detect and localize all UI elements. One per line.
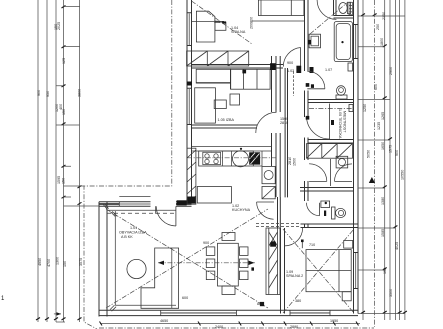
hall closet hatch [307,144,353,159]
bedroom2 door arc [256,112,277,133]
corridor inner wall [285,68,287,197]
svg-text:1650: 1650 [381,142,385,150]
svg-text:200: 200 [250,23,254,29]
chimney foot blob [188,197,196,204]
bathroom1 diagonal [310,2,348,34]
wc bottom wall [301,224,359,228]
bedroom1 wardrobe [196,11,215,42]
bathroom1 toilet [339,3,347,14]
svg-text:125: 125 [62,58,66,64]
tech room bottom wall [308,140,354,144]
living room door leaf [175,206,177,226]
svg-text:1585: 1585 [381,229,385,237]
wall dashed axis [107,212,176,214]
kitchen counter dividers [223,151,232,166]
living room circle chair [127,259,146,278]
svg-text:1800: 1800 [380,38,384,46]
svg-text:1250: 1250 [363,104,367,112]
right dimension line 4 [384,0,386,320]
stove burners [203,152,221,164]
bedroom3 nightstand bottom [342,292,351,301]
svg-text:1.06 TECHNICKA: 1.06 TECHNICKA [338,109,342,139]
living room top wall [99,202,192,206]
bedroom3 bed [306,250,351,292]
living room door jamb stub [155,206,157,214]
svg-text:150: 150 [63,261,67,267]
svg-text:3500: 3500 [389,289,393,297]
right dimension line 2 (dash-dot overhang) [374,0,376,327]
bedroom1 bed [258,0,304,16]
wc door leaf [319,203,321,216]
hall wall stub [330,159,332,186]
svg-text:3575: 3575 [79,258,83,266]
svg-text:OBYVACIA IZBA: OBYVACIA IZBA [119,231,147,235]
window in wing right wall bedroom3 [355,253,357,288]
window bottom wall 1 [161,312,237,314]
svg-text:SPALNA 2: SPALNA 2 [286,274,303,278]
bathroom1 bathtub [334,22,352,62]
svg-text:250: 250 [376,24,380,30]
wc door arc [307,203,320,216]
bedroom3 switch mark [301,241,303,249]
tech room door leaf [329,104,331,141]
svg-text:900: 900 [395,150,399,156]
corridor right wall / bathroom left wall [305,0,309,228]
wc toilet [332,207,336,219]
svg-text:150: 150 [62,178,66,184]
svg-text:4950: 4950 [38,258,42,266]
left bottom connector [56,321,65,323]
svg-text:1.07: 1.07 [325,68,332,72]
living room door arc [156,206,176,226]
kitchen chimney hatch [187,148,196,204]
svg-text:4025: 4025 [395,242,399,250]
chairs left [206,247,215,256]
extension line left ticks [56,7,99,207]
bathroom shelf wall [334,0,354,18]
tech room door arc [307,116,330,139]
chairs right [240,247,249,256]
corner insulation marks [103,198,192,216]
svg-text:900: 900 [287,61,293,65]
living room axis arrow [158,262,255,264]
bedroom3 nightstand top [344,241,353,249]
bedroom1 door arc [283,48,300,67]
svg-text:950: 950 [46,91,50,97]
window top wall [119,203,150,205]
kitchen counter back line [192,147,272,167]
extension lines right [358,16,405,314]
left dimension line 3 [55,0,57,322]
svg-text:2810: 2810 [288,157,292,165]
living room diagonals [106,209,268,308]
svg-text:150: 150 [54,24,58,30]
svg-text:KUCHYNA: KUCHYNA [232,208,251,212]
bedroom3 door arc [285,228,303,246]
wardrobe strip hatched [266,228,280,295]
dimension ticks left [36,6,82,321]
bedroom1 closet band hatched [187,51,249,66]
window in wing left wall upper [188,14,190,46]
bedroom1 diagonal [192,1,253,44]
bathroom1 towel radiator [348,63,353,71]
kitchen door arc [257,202,274,219]
wc sink [321,201,330,208]
kitchen tall cabinets [262,167,275,184]
living room left trim line [114,211,116,305]
svg-text:1500: 1500 [293,158,297,166]
svg-text:600: 600 [182,296,188,300]
svg-text:710: 710 [309,243,315,247]
door jamb blobs [242,70,246,74]
svg-text:2900: 2900 [389,67,393,75]
svg-text:1.05 IZBA: 1.05 IZBA [218,118,235,122]
dining table [218,243,239,286]
bathroom door blob [311,84,314,88]
kitchen counter [199,151,254,166]
tech room axis dashdot [309,108,352,110]
window bottom wall 2 [290,312,330,314]
svg-text:MIESTNOST: MIESTNOST [343,111,347,133]
svg-text:3800: 3800 [78,89,82,97]
bedroom3 diagonals [283,229,354,313]
svg-text:1575: 1575 [389,145,393,153]
chair top [222,233,235,241]
svg-text:4700: 4700 [47,259,51,267]
dashed lintel wall [256,224,301,227]
svg-text:1235: 1235 [377,122,381,130]
bedroom2 bottom wall [192,125,258,128]
svg-text:1.03: 1.03 [287,69,294,73]
window in wing left wall [188,89,190,124]
svg-text:380: 380 [295,299,301,303]
house bottom wall [99,310,358,315]
corner insulation marks bottom [103,206,116,311]
dimension ticks right [361,14,407,314]
svg-text:2400: 2400 [215,325,223,329]
bathroom1 radiator [349,2,352,15]
svg-text:1.01: 1.01 [130,226,137,230]
living room left wall [99,202,107,317]
left dimension line 4 [63,0,65,322]
svg-text:1380: 1380 [381,197,385,205]
svg-text:10550: 10550 [401,170,405,180]
chair bottom [222,286,235,295]
living floor trim bottom [115,304,176,306]
living room sofa [141,248,179,308]
right dimension line 7 [399,0,401,320]
tech door blob [331,120,334,125]
bedroom2 desk [196,69,230,83]
overhang outline dash-dot upper [84,0,172,329]
bedroom3 left wall [281,228,285,314]
elevation triangle [369,177,375,183]
left dimension line 5 [79,0,81,322]
svg-text:2810: 2810 [280,121,288,125]
kitchen sink [233,151,249,167]
svg-text:SPALNA: SPALNA [231,30,246,34]
svg-text:800: 800 [250,17,254,23]
bedroom2 bed [195,88,216,123]
bedroom1 door leaf [300,48,302,67]
wing right wall [353,0,355,314]
svg-text:1265: 1265 [381,112,385,120]
right dimension line 5 [389,0,391,320]
svg-text:4650: 4650 [160,319,168,323]
bathroom door leaf [307,88,325,90]
bedroom2 chair [230,94,240,105]
tech room wall box [349,105,353,112]
dimension ticks bottom [100,322,359,326]
hall bottom wall [300,188,354,192]
svg-text:1300: 1300 [56,257,60,265]
kitchen axis [187,157,276,159]
bedroom1 bottom wall [192,65,284,69]
svg-text:A B KK: A B KK [121,235,133,239]
right dimension line 8 [404,0,406,320]
svg-text:205: 205 [214,20,220,24]
svg-text:150: 150 [62,109,66,115]
living room interior trim line [107,209,176,211]
kitchen dark appliance [249,152,260,164]
right dimension line 1 [362,0,364,320]
bottom overhang dash-dot [99,327,374,329]
hall door leaf left [309,180,327,182]
svg-text:900: 900 [203,241,209,245]
right dimension line 6 [394,0,396,320]
bathroom1 sink [309,34,320,48]
left dimension line 1 [37,0,39,322]
svg-text:5050: 5050 [367,150,371,158]
corridor dashed line [292,71,294,96]
left dimension line 2 [46,0,48,322]
bathroom door arc [307,71,325,89]
corridor left wall [272,56,281,228]
washing machine [336,156,348,168]
svg-text:2890: 2890 [290,325,298,329]
svg-text:1595: 1595 [57,176,61,184]
svg-text:900: 900 [37,90,41,96]
hall door leaf right [335,180,353,182]
svg-text:600: 600 [374,84,378,90]
hall door arc left [309,164,327,182]
wc paper holder [324,211,326,217]
hall door arc right [335,164,353,182]
svg-text:865: 865 [257,302,263,306]
left bottom arrow [54,313,61,315]
window in wing right wall bath [355,25,357,58]
wing left wall [186,0,188,204]
bathroom1 door arc [317,0,336,19]
bathroom1 bottom wall [308,100,354,103]
toilet bottom bathroom1 [337,86,346,96]
kitchen island [197,187,231,204]
jamb blob corridor right [310,67,314,73]
kitchen door leaf [257,201,274,203]
bottom dimension line [100,323,360,325]
